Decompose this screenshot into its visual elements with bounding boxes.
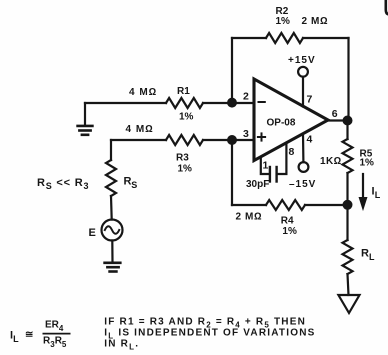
svg-text:+15V: +15V [288,55,316,66]
node: output junction dot [344,117,352,125]
resistor R1 [166,98,203,108]
op-amp minus sign [259,101,265,103]
wire: pin 1 compensation lead [261,158,270,175]
svg-text:4: 4 [307,134,313,146]
resistor R4 [266,200,305,210]
svg-text:≅: ≅ [25,330,33,341]
wire: RL down to chassis ground [348,274,349,295]
svg-text:1KΩ: 1KΩ [320,156,342,167]
wire: R4 bottom wire right segment [305,204,348,206]
svg-text:4 MΩ: 4 MΩ [129,87,157,98]
svg-text:8: 8 [289,146,295,158]
arrow: load current IL [362,174,364,200]
svg-text:2 MΩ: 2 MΩ [236,212,263,223]
svg-text:30pF: 30pF [246,179,269,190]
svg-text:R1: R1 [177,86,190,97]
wire: pin 3 input wire [111,139,166,141]
svg-text:R: R [124,176,132,188]
svg-text:1%: 1% [282,226,297,237]
node: inverting input junction dot [228,99,236,107]
svg-text:E: E [89,227,96,239]
wire: R2 top feedback wire left segment [232,37,266,39]
power +15V terminal circle [298,67,308,77]
svg-text:–15V: –15V [289,179,316,190]
svg-text:R4: R4 [281,216,294,227]
svg-text:R3: R3 [176,153,189,164]
svg-text:2: 2 [243,91,249,103]
svg-text:L: L [369,252,375,262]
resistor RL [343,240,353,274]
wire: left vertical from R2 down to inverting node [231,38,233,106]
svg-text:1: 1 [263,160,269,172]
svg-text:2 MΩ: 2 MΩ [302,16,329,27]
wire: output node down to R5 [346,121,348,140]
svg-text:L: L [375,190,381,200]
wire: pin 4 supply wire [302,134,305,162]
node: R4/R5 load junction dot [344,201,352,209]
svg-text:1%: 1% [178,164,193,175]
op-amp U1 OP-08 triangle [254,79,328,161]
resistor R2 [266,33,303,43]
wire: right rail from top corner down to output node [347,38,349,121]
wire: R2 top feedback wire right segment [303,37,349,39]
resistor R5 [343,139,353,173]
ground: input ground symbol [78,126,93,135]
capacitor C1 30pF plates [270,167,277,182]
svg-text:1%: 1% [276,16,291,27]
svg-text:1%: 1% [179,112,194,123]
wire: source branch from pin3 wire down to RS [110,140,112,160]
svg-text:OP-08: OP-08 [267,118,296,129]
wire: source E to ground [111,241,113,263]
resistor R3 [166,135,203,145]
svg-text:R: R [361,248,369,260]
svg-text:S: S [131,180,137,190]
svg-text:7: 7 [307,94,313,106]
wire: drop to input ground [84,103,86,125]
svg-text:3: 3 [243,128,249,140]
wire: pin 8 compensation lead [277,144,286,175]
wire: op-amp output to node [328,119,348,121]
wire: R5 to load node [346,173,348,205]
decorative corner mark top right [386,0,388,15]
wire: R4 bottom wire left segment [232,204,266,206]
op-amp plus sign [258,133,265,140]
svg-text:4 MΩ: 4 MΩ [126,124,154,135]
node: non-inverting input junction dot [228,136,236,144]
ground: load triangle ground [338,295,359,313]
resistor RS [106,160,116,196]
wire: pin 7 supply wire [302,77,304,107]
wire: pin 2 input wire [85,102,166,104]
ground: source ground symbol [105,263,121,272]
svg-text:6: 6 [332,108,338,120]
svg-text:1%: 1% [360,158,375,169]
wire: non-inverting node down to R4 [231,137,233,205]
wire: load node down to RL [346,205,348,240]
svg-text:RS << R3: RS << R3 [37,177,89,191]
wire: RS to source E [110,196,113,220]
power -15V terminal circle [299,162,309,172]
source E (sine generator) [102,220,123,241]
